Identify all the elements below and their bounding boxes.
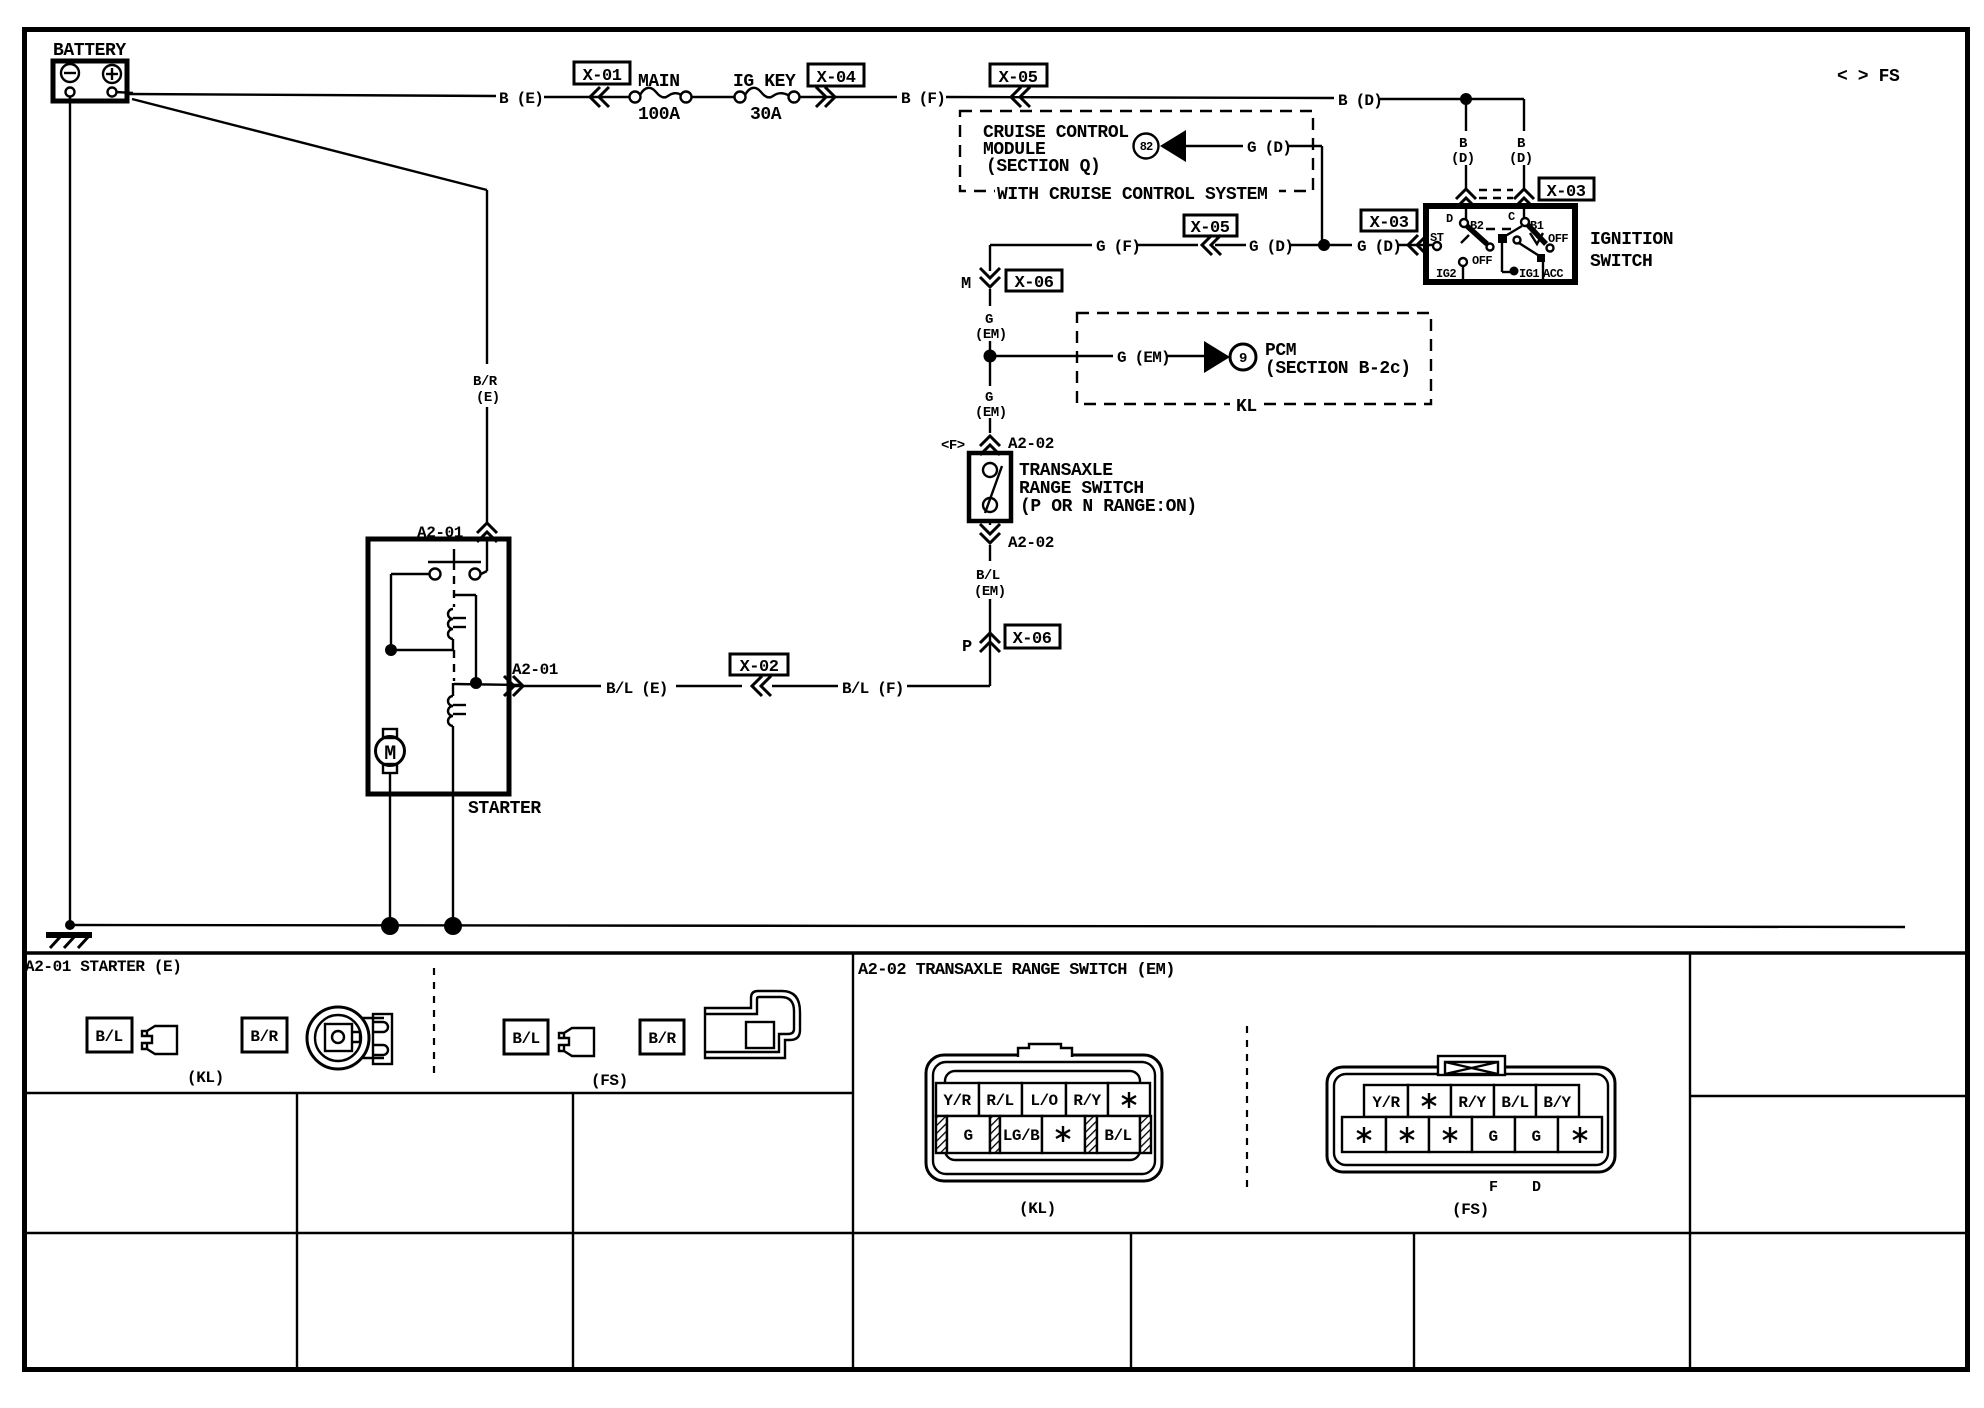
pin label B/R (KL) [242,1018,287,1052]
svg-text:X-05: X-05 [999,69,1038,88]
wire B(F) to X-05 [946,97,1334,98]
label with cruise control system [995,185,1279,205]
svg-text:P: P [962,638,972,657]
terminal icon B/L (KL) [142,1026,177,1054]
svg-text:M: M [961,275,971,294]
svg-text:(KL): (KL) [1019,1200,1056,1218]
fuse MAIN 100A [630,72,692,125]
svg-text:B/L: B/L [976,568,1000,584]
svg-text:X-03: X-03 [1370,214,1409,233]
cruise control module dashed box [960,111,1313,191]
svg-text:B/L (F): B/L (F) [842,680,904,698]
fuse IG KEY 30A [733,72,800,125]
svg-text:STARTER: STARTER [468,799,541,819]
junction dot G(EM) [984,350,997,363]
svg-text:R/L: R/L [986,1092,1013,1110]
label PCM [1265,341,1411,379]
svg-text:B (E): B (E) [499,90,543,108]
A2-02 KL connector body [926,1044,1162,1181]
pin label B/L (KL) [87,1018,132,1052]
label B(D) right branch [1509,136,1533,167]
battery [53,41,133,101]
svg-text:X-04: X-04 [817,69,856,88]
svg-text:G: G [1531,1128,1540,1146]
svg-text:A2-01: A2-01 [512,661,558,679]
wire B(E) battery to fuse MAIN [129,94,629,97]
svg-text:82: 82 [1140,140,1153,154]
svg-text:G: G [963,1127,972,1145]
svg-text:Y/R: Y/R [1372,1094,1400,1112]
A2-02 KL pin row 2 [936,1116,1151,1153]
svg-text:OFF: OFF [1548,232,1568,246]
junction dot G(D) [1318,239,1330,251]
svg-text:(SECTION Q): (SECTION Q) [986,157,1100,177]
label B/R(E) [473,374,500,406]
wire B/L(F) B/L(E) horizontal [509,685,990,687]
connector A2-02 upper chevron [980,435,1054,455]
connector X-03 box left [1361,210,1427,255]
connector X-05 lower [1184,215,1237,255]
wire battery negative to ground [69,96,71,925]
svg-text:B (D): B (D) [1338,92,1382,110]
svg-text:B/L: B/L [1104,1127,1131,1145]
junction dot coil left [385,644,397,656]
wire G(D) to cruise module [1186,146,1322,240]
svg-text:TRANSAXLE: TRANSAXLE [1019,461,1113,481]
svg-text:A2-02 TRANSAXLE RANGE SWITCH (: A2-02 TRANSAXLE RANGE SWITCH (EM) [858,961,1175,980]
svg-text:(P OR N RANGE:ON): (P OR N RANGE:ON) [1020,497,1197,517]
wire motor to ground [389,773,391,926]
connector A2-01 right chevron [504,661,558,696]
svg-text:B: B [1517,136,1526,152]
pin label B/L (FS) [504,1020,548,1054]
label G(EM) lower [975,390,1007,421]
label B/L(EM) [974,568,1006,600]
label KL [1230,396,1264,417]
svg-text:Y/R: Y/R [943,1092,971,1110]
svg-text:B: B [1459,136,1468,152]
svg-text:R/Y: R/Y [1458,1094,1486,1112]
svg-text:(D): (D) [1451,151,1475,167]
starter relay contact [428,538,487,580]
A2-02 KL pin row 1 [936,1083,1150,1116]
svg-text:< > FS: < > FS [1837,67,1900,87]
svg-text:G: G [985,390,993,406]
svg-text:30A: 30A [750,105,782,125]
arrow into cruise module [1160,130,1186,162]
elbow terminal icon (FS) [705,991,800,1058]
transaxle range switch [969,453,1011,521]
svg-text:C: C [1508,210,1515,224]
svg-text:A2-02: A2-02 [1008,435,1054,453]
svg-text:A2-02: A2-02 [1008,534,1054,552]
svg-text:R/Y: R/Y [1073,1092,1101,1110]
A2-02 FS connector body [1327,1056,1615,1172]
svg-text:X-06: X-06 [1015,274,1054,293]
svg-text:KL: KL [1236,397,1257,417]
svg-text:IG KEY: IG KEY [733,72,796,92]
svg-text:X-01: X-01 [583,67,622,86]
junction dot starter motor ground [381,917,399,935]
wire B(D) down to ignition D terminal [1465,99,1467,220]
svg-text:B/R: B/R [648,1030,676,1048]
svg-text:G (EM): G (EM) [1117,349,1170,367]
svg-text:WITH CRUISE CONTROL SYSTEM: WITH CRUISE CONTROL SYSTEM [997,185,1267,205]
wire solenoid output [454,684,520,685]
svg-text:(E): (E) [476,390,500,406]
svg-text:PCM: PCM [1265,341,1296,361]
svg-text:X-03: X-03 [1547,183,1586,202]
starter pull-in coil [391,609,466,650]
PCM dashed box [1077,313,1431,404]
wire G(F) down to X-06 [989,245,991,271]
svg-text:9: 9 [1239,351,1247,367]
pin label B/R (FS) [640,1020,684,1054]
svg-text:(EM): (EM) [975,405,1007,421]
connector X-02 [730,654,788,696]
ground bus wire [70,925,1905,927]
connector X-03 box right [1539,178,1594,202]
A2-02 FS pin row 1 [1364,1085,1579,1117]
label G(EM) upper [975,312,1007,343]
svg-text:B/L: B/L [1501,1094,1528,1112]
svg-text:(EM): (EM) [975,327,1007,343]
connector X-06 upper [980,268,1062,293]
connector X-04 [800,64,897,107]
label B(D) left branch [1451,136,1475,167]
junction dot B(D) [1460,93,1472,105]
svg-text:B (F): B (F) [901,90,945,108]
connector X-01 [574,62,630,107]
svg-text:L/O: L/O [1030,1092,1058,1110]
wire G(F) G(D) horizontal run [990,244,1433,246]
wire contact to motor branch [391,574,429,650]
wire hold-in coil to ground [452,726,454,926]
svg-text:G (D): G (D) [1357,238,1401,256]
starter motor M [376,729,405,773]
svg-text:IG2: IG2 [1436,267,1456,281]
svg-text:G: G [985,312,993,328]
wire B/R(E) battery to starter [132,99,487,524]
svg-text:B/L: B/L [95,1028,122,1046]
connector A2-01 top chevron [417,523,497,542]
svg-text:(SECTION B-2c): (SECTION B-2c) [1265,359,1411,379]
svg-text:RANGE SWITCH: RANGE SWITCH [1019,479,1144,499]
svg-text:<F>: <F> [941,438,965,454]
pin labels F D [1489,1179,1541,1196]
svg-text:G (D): G (D) [1249,238,1293,256]
svg-text:M: M [384,743,396,766]
svg-text:(FS): (FS) [591,1072,628,1090]
label transaxle range switch [1019,461,1197,517]
wire B(D) down to ignition C terminal [1523,99,1525,219]
wire coil top loop [454,595,476,683]
svg-text:G: G [1488,1128,1497,1146]
junction dot coil right [470,677,482,689]
svg-text:B/R: B/R [250,1028,278,1046]
junction dot starter coil ground [444,917,462,935]
svg-text:G (D): G (D) [1247,139,1291,157]
ring terminal icon (KL) [307,1007,392,1069]
svg-text:(D): (D) [1509,151,1533,167]
svg-text:IGNITION: IGNITION [1590,230,1673,250]
label ignition switch [1590,230,1673,272]
connector X-03 chevrons into ignition switch [1456,189,1534,208]
svg-text:(KL): (KL) [187,1069,224,1087]
svg-text:X-06: X-06 [1013,630,1052,649]
svg-text:OFF: OFF [1472,254,1492,268]
connector X-05 [990,64,1047,107]
svg-text:B/L: B/L [512,1030,539,1048]
svg-text:B/Y: B/Y [1543,1094,1571,1112]
wire G(EM) vertical [989,289,991,433]
connector A2-02 lower chevron [980,524,1054,552]
A2-02 FS pin row 2 [1342,1117,1602,1152]
wire B/L(EM) vertical [989,521,991,686]
svg-text:(EM): (EM) [974,584,1006,600]
svg-text:ACC: ACC [1543,267,1563,281]
arrow into PCM [1204,341,1230,373]
starter box [368,539,509,794]
starter solenoid dashed link [453,562,455,681]
svg-text:(FS): (FS) [1452,1201,1489,1219]
cruise module circle 82 [1134,134,1159,159]
svg-text:D: D [1446,212,1453,226]
wire G(EM) to PCM [990,355,1204,357]
svg-text:D: D [1532,1179,1541,1196]
svg-text:BATTERY: BATTERY [53,41,126,61]
svg-text:B/L (E): B/L (E) [606,680,668,698]
svg-text:G (F): G (F) [1096,238,1140,256]
svg-text:LG/B: LG/B [1003,1127,1040,1145]
svg-text:A2-01 STARTER (E): A2-01 STARTER (E) [25,958,181,976]
svg-text:SWITCH: SWITCH [1590,252,1652,272]
starter hold-in coil [448,683,466,726]
ignition switch [1426,206,1575,282]
svg-text:F: F [1489,1179,1498,1196]
svg-text:B/R: B/R [473,374,498,390]
connector X-06 lower [980,625,1060,652]
svg-text:IG1: IG1 [1519,267,1539,281]
terminal icon B/L (FS) [559,1028,594,1056]
wire B(D) to ignition branch [1380,98,1524,100]
svg-text:100A: 100A [638,105,680,125]
ground [46,920,92,948]
PCM circle 9 [1230,344,1256,370]
wire between fuses [692,96,734,98]
svg-text:X-02: X-02 [740,658,779,677]
